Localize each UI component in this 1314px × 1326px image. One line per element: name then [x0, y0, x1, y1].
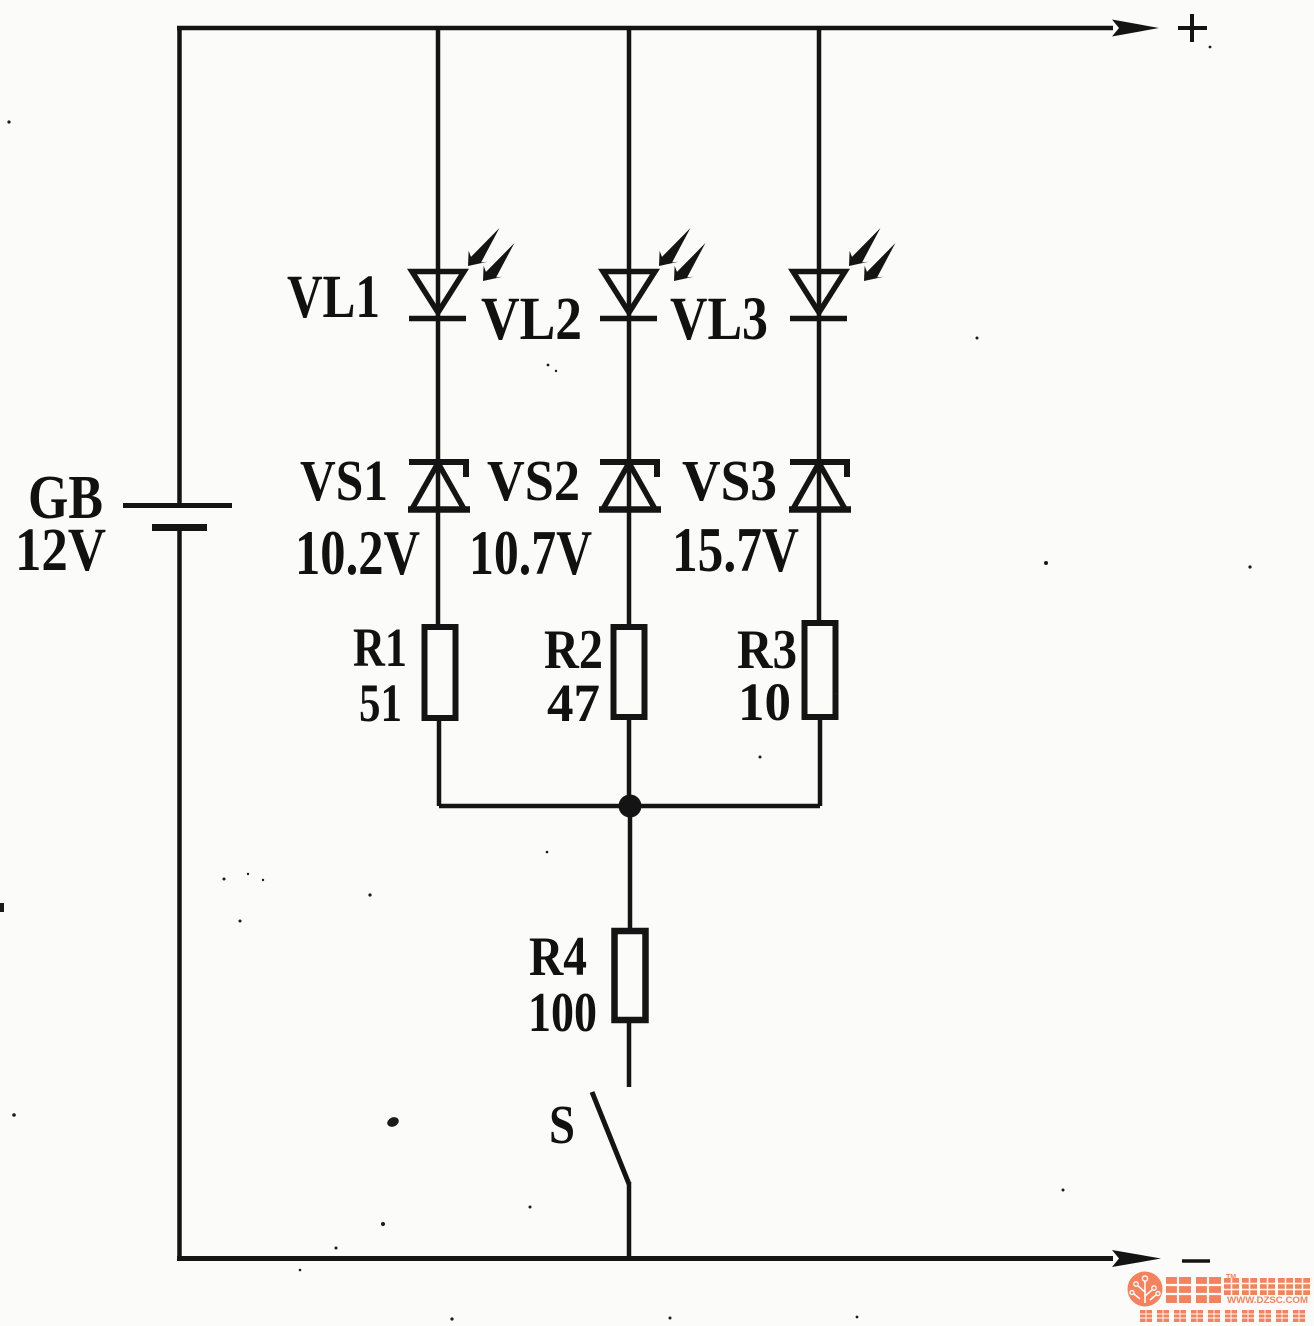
watermark text 维库 (stylized blocks) — [1166, 1277, 1221, 1303]
zener diode VS2 — [599, 462, 661, 510]
LED VL2 — [600, 272, 657, 319]
wire: bottom negative rail — [177, 1256, 1113, 1261]
arrowhead of bottom negative rail — [1112, 1250, 1161, 1267]
svg-text:47: 47 — [547, 673, 600, 733]
resistor R1 — [425, 627, 456, 718]
wire: branch 1 horizontal to node A — [439, 804, 630, 809]
plus terminal label — [1178, 14, 1207, 42]
svg-text:VL1: VL1 — [287, 264, 380, 331]
wire: branch 3 horizontal to node A — [630, 804, 820, 809]
wire: top positive rail — [177, 26, 1113, 31]
wire: branch 2 vertical through VL2 and VS2 — [627, 26, 632, 627]
wire: left vertical (battery top section) — [177, 26, 182, 505]
svg-text:R4: R4 — [529, 926, 587, 988]
wire: node A to R4 — [628, 806, 633, 931]
wire: left vertical (battery bottom section) — [177, 528, 182, 1260]
battery GB positive plate — [123, 503, 232, 508]
zener diode VS1 — [408, 462, 470, 510]
wire: branch 1 R1 down leg — [437, 719, 442, 806]
svg-text:VS2: VS2 — [487, 448, 580, 513]
wire: branch 3 R3 down leg — [818, 718, 823, 806]
LED VL1 — [409, 272, 466, 319]
svg-text:10: 10 — [738, 672, 791, 732]
wire: R4 to switch S — [627, 1021, 632, 1087]
wire: branch 2 R2 down to node A — [627, 718, 632, 806]
svg-text:10.7V: 10.7V — [469, 517, 592, 588]
wire: branch 3 vertical through VL3 and VS3 — [817, 26, 822, 623]
svg-text:15.7V: 15.7V — [672, 514, 799, 585]
watermark slogan 专业电子元器件交易网站 (stylized blocks) — [1140, 1310, 1305, 1322]
switch S blade — [592, 1092, 629, 1184]
svg-text:51: 51 — [359, 673, 402, 733]
resistor R3 — [805, 623, 836, 717]
svg-text:VL3: VL3 — [670, 286, 768, 353]
LED VL3 — [790, 272, 847, 319]
resistor R2 — [614, 627, 645, 717]
zener diode VS3 — [789, 462, 851, 510]
svg-text:R1: R1 — [353, 617, 407, 678]
svg-text:VS3: VS3 — [682, 448, 777, 513]
LED VL3 light arrows — [842, 224, 907, 288]
LED VL1 light arrows — [461, 224, 526, 288]
LED VL2 light arrows — [652, 224, 717, 288]
svg-text:VL2: VL2 — [481, 286, 582, 353]
svg-text:VS1: VS1 — [300, 448, 388, 513]
svg-text:WWW.DZSC.COM: WWW.DZSC.COM — [1227, 1295, 1308, 1306]
svg-text:12V: 12V — [15, 517, 106, 584]
minus terminal label — [1182, 1259, 1210, 1263]
svg-text:R2: R2 — [544, 619, 603, 681]
svg-text:100: 100 — [528, 982, 597, 1044]
wire: switch S to bottom rail — [627, 1182, 632, 1260]
watermark text 电子市场网 (stylized blocks) — [1224, 1278, 1310, 1295]
svg-text:10.2V: 10.2V — [295, 517, 420, 588]
svg-text:S: S — [549, 1094, 575, 1155]
wire: branch 1 vertical through VL1 and VS1 — [436, 26, 441, 627]
watermark logo circle — [1128, 1272, 1163, 1307]
resistor R4 — [615, 931, 646, 1020]
battery GB negative plate — [152, 524, 207, 531]
node A junction dot — [619, 795, 642, 818]
arrowhead of top positive rail — [1112, 20, 1159, 37]
